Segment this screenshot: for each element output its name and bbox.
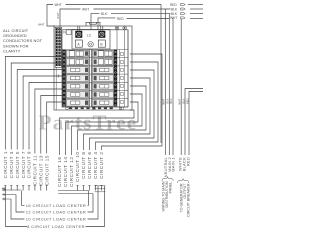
wire circuit 10 [84, 78, 151, 150]
wire stubs below labels right [101, 185, 103, 190]
wire red to gen breaker, edge stub [189, 92, 203, 156]
wire circuit 15 [47, 102, 63, 154]
breaker row 5 left [66, 83, 88, 90]
wire circuit 16 [102, 54, 163, 150]
svg-text:CIRCUIT 1: CIRCUIT 1 [3, 151, 8, 178]
neutral bar lower edge line [55, 67, 57, 110]
right accessory column [119, 50, 121, 108]
svg-text:CIRCUIT BREAKER: CIRCUIT BREAKER [187, 183, 191, 217]
connector ticks right cluster [95, 185, 106, 187]
svg-text:CIRCUIT 2: CIRCUIT 2 [99, 152, 104, 179]
svg-text:CIRCUIT 12: CIRCUIT 12 [69, 157, 74, 187]
neutral bar N [55, 27, 61, 67]
svg-text:CIRCUIT 13: CIRCUIT 13 [39, 155, 44, 185]
svg-text:CIRCUIT 14: CIRCUIT 14 [63, 157, 68, 187]
svg-text:RED: RED [117, 17, 124, 21]
breaker row 1 left [66, 50, 88, 57]
bracket 10 circuit load center [11, 199, 25, 219]
svg-text:CIRCUIT 16: CIRCUIT 16 [57, 157, 62, 187]
wire BLK row3 [91, 14, 100, 30]
bracket 12 circuit load center [16, 195, 25, 213]
svg-text:WHT: WHT [177, 98, 181, 104]
wire WHT row2 [60, 9, 81, 28]
breaker row 2 right [92, 59, 113, 66]
branch breaker rows [62, 49, 128, 51]
svg-text:CIRCUIT 5: CIRCUIT 5 [15, 151, 20, 178]
svg-text:8 CIRCUIT LOAD CENTER: 8 CIRCUIT LOAD CENTER [27, 224, 85, 229]
wire stubs to main terminals [77, 26, 79, 31]
wire RED row4 [98, 18, 116, 30]
svg-text:CIRCUIT 4: CIRCUIT 4 [93, 152, 98, 179]
breaker row 5 right [92, 83, 113, 90]
wire circuit 7 [23, 76, 63, 150]
main breaker screw [88, 42, 93, 47]
panel bottom screws [66, 107, 69, 110]
neutral lug mid connector [56, 75, 61, 77]
breaker row 7 right [92, 100, 113, 107]
center bus [89, 50, 91, 108]
svg-text:CIRCUIT 10: CIRCUIT 10 [75, 152, 80, 182]
breaker row 3 left [66, 67, 88, 74]
svg-text:WHT: WHT [38, 22, 45, 26]
breaker row 7 left [66, 100, 88, 107]
wire circuit 4 [66, 102, 139, 155]
brace main panel group [162, 177, 173, 181]
svg-text:CLARITY: CLARITY [3, 49, 21, 54]
right terminal strip [114, 50, 117, 107]
svg-text:10 CIRCUIT LOAD CENTER: 10 CIRCUIT LOAD CENTER [26, 217, 87, 222]
inner assembly frame [62, 30, 128, 107]
brace generator group [178, 179, 189, 183]
aux box left of main breaker [66, 30, 71, 35]
wire circuit 11 [35, 89, 63, 154]
svg-text:BLK: BLK [171, 7, 178, 11]
svg-text:WHT: WHT [56, 12, 60, 19]
pole B [98, 40, 105, 47]
svg-text:WHT: WHT [82, 7, 89, 11]
bus lines right of stubs [58, 190, 89, 192]
breaker row 4 right [92, 75, 113, 82]
svg-text:MAIN 1: MAIN 1 [170, 156, 175, 171]
svg-text:RED: RED [170, 3, 177, 7]
wire circuit 12 [90, 70, 155, 150]
svg-text:CIRCUIT 8: CIRCUIT 8 [81, 152, 86, 179]
wire circuit 14 [96, 62, 159, 150]
svg-text:BLK: BLK [101, 12, 108, 16]
svg-text:RED: RED [185, 98, 189, 104]
wire circuit 5 [17, 70, 62, 150]
connector ticks left edge [2, 189, 21, 191]
bracket 8 circuit load center [2, 188, 6, 190]
svg-text:CIRCUIT 9: CIRCUIT 9 [27, 151, 32, 178]
svg-text:BLK: BLK [165, 98, 169, 103]
wire circuit 6 [72, 94, 143, 155]
breaker row 2 left [66, 59, 88, 66]
svg-text:16 CIRCUIT LOAD CENTER: 16 CIRCUIT LOAD CENTER [26, 203, 87, 208]
svg-text:BLK: BLK [181, 98, 185, 103]
breaker row 4 left [66, 75, 88, 82]
svg-text:WHT: WHT [55, 3, 62, 7]
wire WHT row1 [47, 5, 55, 27]
svg-text:PANEL: PANEL [169, 182, 173, 194]
svg-text:12 CIRCUIT LOAD CENTER: 12 CIRCUIT LOAD CENTER [26, 210, 87, 215]
wire circuit 3 [11, 63, 62, 150]
breaker row 3 right [92, 67, 113, 74]
wire circuit 8 [78, 86, 147, 150]
breaker row 6 right [92, 91, 113, 98]
enclosure top bump [86, 22, 100, 26]
wire stubs below labels left [4, 185, 6, 190]
svg-text:RED: RED [185, 157, 190, 166]
svg-text:PartsTree: PartsTree [39, 111, 138, 135]
panel bottom terminal dashes [69, 107, 72, 109]
wire white to gen breaker [180, 19, 182, 155]
svg-text:CIRCUIT 11: CIRCUIT 11 [33, 155, 38, 185]
svg-text:CIRCUIT 3: CIRCUIT 3 [9, 151, 14, 178]
svg-text:CIRCUIT 7: CIRCUIT 7 [21, 151, 26, 178]
main terminal B lug [98, 31, 105, 38]
load center enclosure [54, 26, 132, 110]
svg-text:N: N [63, 29, 66, 34]
wire circuit 13 [41, 96, 63, 154]
wire circuit 9 [29, 83, 63, 150]
wire circuit 1 [5, 57, 62, 150]
svg-text:CIRCUIT 15: CIRCUIT 15 [44, 155, 49, 185]
main terminal A lug [75, 31, 82, 38]
wire corner to neutral-main verticals [160, 5, 162, 144]
svg-text:BLK: BLK [169, 98, 173, 103]
pole A [75, 40, 82, 47]
wire black to gen breaker, edge stub [185, 89, 203, 156]
main breaker LC [72, 30, 110, 50]
breaker row 6 left [66, 91, 88, 98]
enclosure inner right edge [127, 30, 129, 107]
svg-text:WHT: WHT [170, 16, 177, 20]
breaker row 1 right [92, 50, 113, 57]
svg-text:LC: LC [87, 34, 92, 38]
left terminal strip [62, 50, 65, 107]
panel top right terminals [115, 26, 119, 30]
svg-text:CIRCUIT 6: CIRCUIT 6 [87, 152, 92, 179]
bracket 16 circuit load center [22, 191, 25, 206]
wire circuit 2 [60, 110, 135, 155]
